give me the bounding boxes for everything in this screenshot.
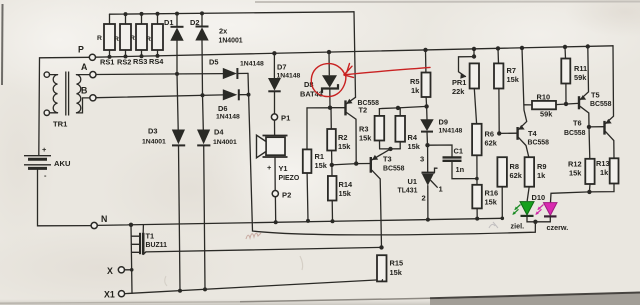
resistor R9 <box>525 157 535 187</box>
svg-text:R: R <box>146 36 151 43</box>
svg-text:15k: 15k <box>339 189 352 198</box>
diode D5 <box>223 68 237 79</box>
resistor R7 <box>496 46 500 50</box>
diode D1 <box>176 14 178 27</box>
svg-text:X: X <box>107 266 113 276</box>
svg-text:D10: D10 <box>532 193 546 202</box>
svg-text:1N4148: 1N4148 <box>216 114 240 121</box>
svg-text:R5: R5 <box>410 77 419 86</box>
potentiometer PR1 <box>472 47 476 51</box>
svg-text:R9: R9 <box>537 162 546 171</box>
wire: upper mid line R3 R4 R5 D9 <box>379 106 426 108</box>
svg-text:1N4148: 1N4148 <box>439 128 463 135</box>
svg-text:62k: 62k <box>510 171 523 180</box>
svg-text:15k: 15k <box>338 142 351 151</box>
svg-text:X1: X1 <box>104 290 115 300</box>
wire: T1 source line to R15 top <box>146 247 382 252</box>
svg-text:1k: 1k <box>411 86 420 95</box>
svg-text:T4: T4 <box>528 129 538 138</box>
svg-text:1N4001: 1N4001 <box>213 139 237 146</box>
svg-text:22k: 22k <box>452 87 465 96</box>
svg-text:R10: R10 <box>537 93 551 102</box>
resistor R4 <box>399 108 401 116</box>
resistor R8 <box>497 157 507 187</box>
transistor T6 BC558 <box>587 125 591 129</box>
svg-text:15k: 15k <box>507 75 520 84</box>
piezo Y1 <box>274 120 276 135</box>
svg-text:ziel.: ziel. <box>511 221 525 230</box>
svg-text:R: R <box>114 36 119 43</box>
svg-text:T1: T1 <box>146 232 155 241</box>
svg-text:BUZ11: BUZ11 <box>146 242 168 249</box>
svg-text:BC558: BC558 <box>590 101 612 108</box>
transistor T1 BUZ11 <box>131 235 139 237</box>
resistor R15 <box>377 255 387 281</box>
svg-text:BC558: BC558 <box>383 165 405 172</box>
svg-text:T2: T2 <box>359 106 368 115</box>
svg-text:R6: R6 <box>485 130 494 139</box>
svg-text:R11: R11 <box>574 64 587 73</box>
svg-text:+: + <box>267 163 272 172</box>
svg-text:PIEZO: PIEZO <box>279 175 300 182</box>
wire: battery bottom to N <box>38 170 91 226</box>
svg-text:BC558: BC558 <box>528 140 550 147</box>
svg-text:59k: 59k <box>574 73 587 82</box>
svg-text:2x: 2x <box>219 27 228 36</box>
svg-text:U1: U1 <box>408 177 417 186</box>
scan edge top <box>255 1 640 4</box>
svg-text:1n: 1n <box>456 165 465 174</box>
node A <box>90 72 96 78</box>
svg-text:A: A <box>81 62 88 72</box>
svg-text:D2: D2 <box>190 18 199 27</box>
svg-text:R12: R12 <box>568 160 582 169</box>
svg-text:1N4148: 1N4148 <box>240 61 264 68</box>
resistor R14 <box>330 163 334 167</box>
wire: top rail over RS1-RS4,D1,D2 to corner <box>110 12 355 14</box>
red annotation arrow <box>344 67 430 75</box>
resistor RS1 <box>109 14 111 24</box>
svg-text:15k: 15k <box>408 142 421 151</box>
resistor R2 <box>330 108 332 129</box>
svg-text:D1: D1 <box>164 18 173 27</box>
svg-text:R8: R8 <box>510 162 519 171</box>
svg-text:TR1: TR1 <box>53 120 68 129</box>
battery AKU <box>24 155 51 157</box>
svg-text:N: N <box>101 214 107 224</box>
svg-text:RS2: RS2 <box>117 58 131 67</box>
wire: base node D8/R1/R2/T2 <box>330 107 345 109</box>
transistor T4 BC558 <box>497 131 501 135</box>
svg-text:T3: T3 <box>383 155 392 164</box>
wire: N rail <box>97 218 502 225</box>
svg-text:1k: 1k <box>600 168 609 177</box>
resistor RS3 <box>141 14 143 24</box>
wire: X1 bottom rail <box>125 280 383 294</box>
LED green rays <box>515 205 521 210</box>
svg-text:15k: 15k <box>390 268 403 277</box>
svg-text:1N4001: 1N4001 <box>219 38 243 45</box>
svg-text:R16: R16 <box>485 189 499 198</box>
wire: R2/R14 junction to T3 base <box>332 164 370 165</box>
svg-text:3: 3 <box>420 155 424 164</box>
svg-text:PR1: PR1 <box>452 78 466 87</box>
wire: P positive rail <box>96 46 613 57</box>
svg-text:B: B <box>81 86 87 96</box>
LED red rays <box>538 205 544 210</box>
svg-text:15k: 15k <box>485 198 498 207</box>
resistor R5 <box>423 48 427 52</box>
node P <box>89 54 95 60</box>
svg-text:R: R <box>130 35 135 42</box>
svg-text:2: 2 <box>422 194 426 203</box>
svg-text:R1: R1 <box>315 152 324 161</box>
node N <box>91 222 97 228</box>
node P2 <box>272 191 278 197</box>
svg-text:T5: T5 <box>591 91 600 100</box>
resistor R1 <box>306 108 308 149</box>
LED D10 red <box>544 203 558 216</box>
svg-text:P2: P2 <box>282 191 291 200</box>
node P1 <box>271 114 277 120</box>
capacitor C1 <box>425 143 429 147</box>
resistor R11 <box>563 45 567 49</box>
faint pencil scribbles <box>246 233 261 239</box>
svg-text:P: P <box>78 45 84 55</box>
diode D6 <box>223 89 238 100</box>
resistor R13 <box>610 158 619 183</box>
red annotation circle around D8 <box>311 64 346 97</box>
svg-text:RS1: RS1 <box>100 58 114 67</box>
resistor RS4 <box>157 14 159 24</box>
svg-text:R4: R4 <box>408 133 418 142</box>
wire: T1 drain/gate column N-rail to X1 rail <box>131 225 132 293</box>
svg-text:P1: P1 <box>281 114 291 123</box>
node X1 <box>118 291 124 297</box>
wire: R3/R4 bottoms to T3 emitter <box>380 148 401 150</box>
svg-text:Y1: Y1 <box>279 164 288 173</box>
transistor T2 BC558 <box>344 100 346 115</box>
transistor T3 BC558 <box>370 157 372 173</box>
wire: A wire to D5 <box>96 73 223 76</box>
resistor R6 <box>472 124 482 156</box>
svg-text:D9: D9 <box>439 118 448 127</box>
svg-text:T6: T6 <box>573 119 582 128</box>
svg-text:R7: R7 <box>507 66 516 75</box>
svg-text:BC558: BC558 <box>564 130 586 137</box>
svg-text:RS3: RS3 <box>133 57 147 66</box>
resistor RS2 <box>125 14 127 24</box>
resistor R12 <box>588 127 591 159</box>
wire: vertical from top-rail corner down to T2 emitter <box>354 12 356 98</box>
wire: X stub to T1 column <box>125 269 132 271</box>
diode D7 <box>272 51 276 55</box>
resistor R10 <box>524 104 532 106</box>
diode D3 <box>177 74 178 130</box>
resistor R16 <box>475 177 479 181</box>
svg-text:R13: R13 <box>596 159 610 168</box>
diode D9 <box>426 106 428 119</box>
svg-text:59k: 59k <box>540 110 553 119</box>
diode D2 <box>201 13 203 26</box>
svg-text:RS4: RS4 <box>149 57 164 66</box>
node B <box>90 95 96 101</box>
wire: B wire to D6 <box>96 95 223 98</box>
svg-text:15k: 15k <box>569 169 582 178</box>
U1 TL431 <box>427 145 429 172</box>
wire: D5/D6 common vertical down to LED return line <box>248 73 535 235</box>
svg-text:R14: R14 <box>339 180 353 189</box>
svg-text:D5: D5 <box>209 58 218 67</box>
svg-text:R2: R2 <box>338 133 347 142</box>
svg-text:D7: D7 <box>277 63 286 72</box>
svg-text:TL431: TL431 <box>398 188 418 195</box>
scan edge bottom <box>0 299 640 305</box>
svg-text:R3: R3 <box>359 125 368 134</box>
transistor T5 BC558 <box>578 96 580 109</box>
svg-text:D3: D3 <box>148 127 157 136</box>
svg-text:+: + <box>42 145 47 154</box>
wire: P node to battery top <box>39 57 89 155</box>
resistor R3 <box>378 109 380 116</box>
svg-text:D6: D6 <box>218 104 227 113</box>
svg-text:1N4001: 1N4001 <box>142 139 166 146</box>
svg-text:R15: R15 <box>390 259 404 268</box>
svg-text:czerw.: czerw. <box>547 223 569 232</box>
svg-text:62k: 62k <box>485 139 498 148</box>
svg-text:D4: D4 <box>214 128 224 137</box>
svg-text:15k: 15k <box>315 161 328 170</box>
wire: R12/R13 junction to red LED <box>551 192 590 202</box>
svg-text:R: R <box>97 35 102 42</box>
wire: secondary top to node A <box>77 74 90 76</box>
svg-text:C1: C1 <box>454 147 463 156</box>
wire: P2 column to N rail <box>274 197 276 223</box>
transformer TR1 <box>44 72 49 77</box>
diode D4 <box>202 95 205 129</box>
LED D10 green <box>520 202 534 215</box>
diode D8 BAT43 <box>327 50 331 54</box>
scan edge left <box>1 4 4 85</box>
svg-text:15k: 15k <box>359 134 372 143</box>
svg-text:AKU: AKU <box>54 159 71 168</box>
svg-text:1k: 1k <box>537 171 546 180</box>
svg-text:1N4148: 1N4148 <box>277 73 301 80</box>
node X <box>118 267 124 273</box>
wire: secondary bottom to node B <box>77 98 90 113</box>
